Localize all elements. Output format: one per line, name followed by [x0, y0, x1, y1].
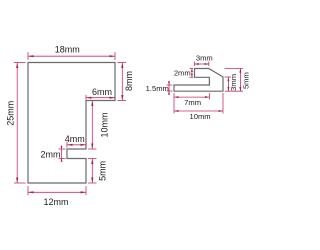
- svg-text:2mm: 2mm: [174, 69, 191, 78]
- svg-text:6mm: 6mm: [92, 87, 112, 97]
- dimension graphics: [14, 52, 243, 195]
- svg-text:10mm: 10mm: [190, 112, 211, 121]
- arrowheads: [16, 55, 241, 193]
- svg-text:8mm: 8mm: [124, 71, 134, 91]
- 5mm dim line: [91, 159, 93, 184]
- 12mm dim line: [28, 191, 86, 193]
- right profile outline: [174, 69, 223, 92]
- right top 3mm arrows: [195, 63, 199, 65]
- 10mm arrows: [91, 101, 93, 107]
- 7mm dim line: [174, 96, 209, 98]
- 18mm arrows: [28, 55, 34, 57]
- 6mm arrows: [86, 97, 92, 99]
- right 3mm dim line: [227, 77, 229, 91]
- right 1.5mm arrows (outside pointing in): [168, 82, 170, 86]
- 8mm dim: ext lines: [118, 62, 127, 64]
- 7mm arrows: [174, 96, 179, 98]
- right 5mm arrows: [239, 68, 241, 72]
- 1.5mm dim line (outside arrows): [168, 81, 170, 95]
- svg-text:7mm: 7mm: [184, 98, 201, 107]
- 4mm dim line: [67, 144, 86, 146]
- right shape: right 3mm ext line: [225, 76, 232, 78]
- svg-text:18mm: 18mm: [55, 44, 80, 54]
- 2mm dim line (outside arrows): [61, 146, 63, 162]
- 2mm arrows (outside pointing in): [61, 146, 63, 149]
- right shape: 1.5mm ext lines: [167, 84, 173, 86]
- 8mm dim line: [121, 63, 123, 101]
- svg-text:4mm: 4mm: [65, 134, 85, 144]
- 8mm arrows: [121, 63, 123, 69]
- 12mm dim: ext lines: [27, 186, 29, 195]
- 10mm dim line: [174, 110, 223, 112]
- svg-text:3mm: 3mm: [196, 54, 213, 63]
- 6mm dim: ext line: [85, 95, 87, 100]
- 5mm arrows: [91, 159, 93, 165]
- svg-text:1.5mm: 1.5mm: [146, 84, 169, 93]
- left profile outline: [28, 63, 115, 184]
- 10mm dim: ext line: [88, 148, 97, 150]
- right shape: 10mm ext line: [222, 93, 224, 114]
- 2mm dim: ext lines: [59, 148, 66, 150]
- right shape: 2mm ext lines: [190, 68, 194, 70]
- svg-text:25mm: 25mm: [6, 101, 16, 126]
- 25mm dim: ext lines: [14, 62, 26, 64]
- svg-text:12mm: 12mm: [43, 197, 68, 207]
- right shape: 7mm ext lines: [173, 93, 175, 114]
- svg-text:5mm: 5mm: [98, 161, 108, 181]
- right 5mm dim line: [239, 68, 241, 91]
- 18mm dim: ext lines: [27, 52, 29, 60]
- 12mm arrows: [28, 191, 34, 193]
- 10mm bottom arrows: [174, 110, 179, 112]
- 18mm dim line: [28, 55, 115, 57]
- svg-text:2mm: 2mm: [41, 150, 61, 160]
- 25mm dim line: [16, 63, 18, 184]
- svg-text:3mm: 3mm: [229, 74, 238, 91]
- right 3mm arrows: [227, 77, 229, 81]
- right shape: top 3mm ext lines: [194, 62, 196, 67]
- top 3mm dim line: [195, 63, 209, 65]
- 6mm dim line: [86, 97, 115, 99]
- 2mm dim line: [191, 69, 193, 78]
- 25mm arrows: [16, 63, 18, 69]
- svg-text:10mm: 10mm: [99, 112, 109, 137]
- svg-text:5mm: 5mm: [242, 72, 250, 89]
- right shape: 5mm ext lines: [225, 67, 244, 69]
- 5mm dim: ext lines: [88, 158, 97, 160]
- 10mm dim line: [91, 101, 93, 150]
- 4mm dim: ext lines: [66, 142, 68, 148]
- 4mm arrows: [67, 144, 73, 146]
- right 2mm arrows: [191, 69, 193, 73]
